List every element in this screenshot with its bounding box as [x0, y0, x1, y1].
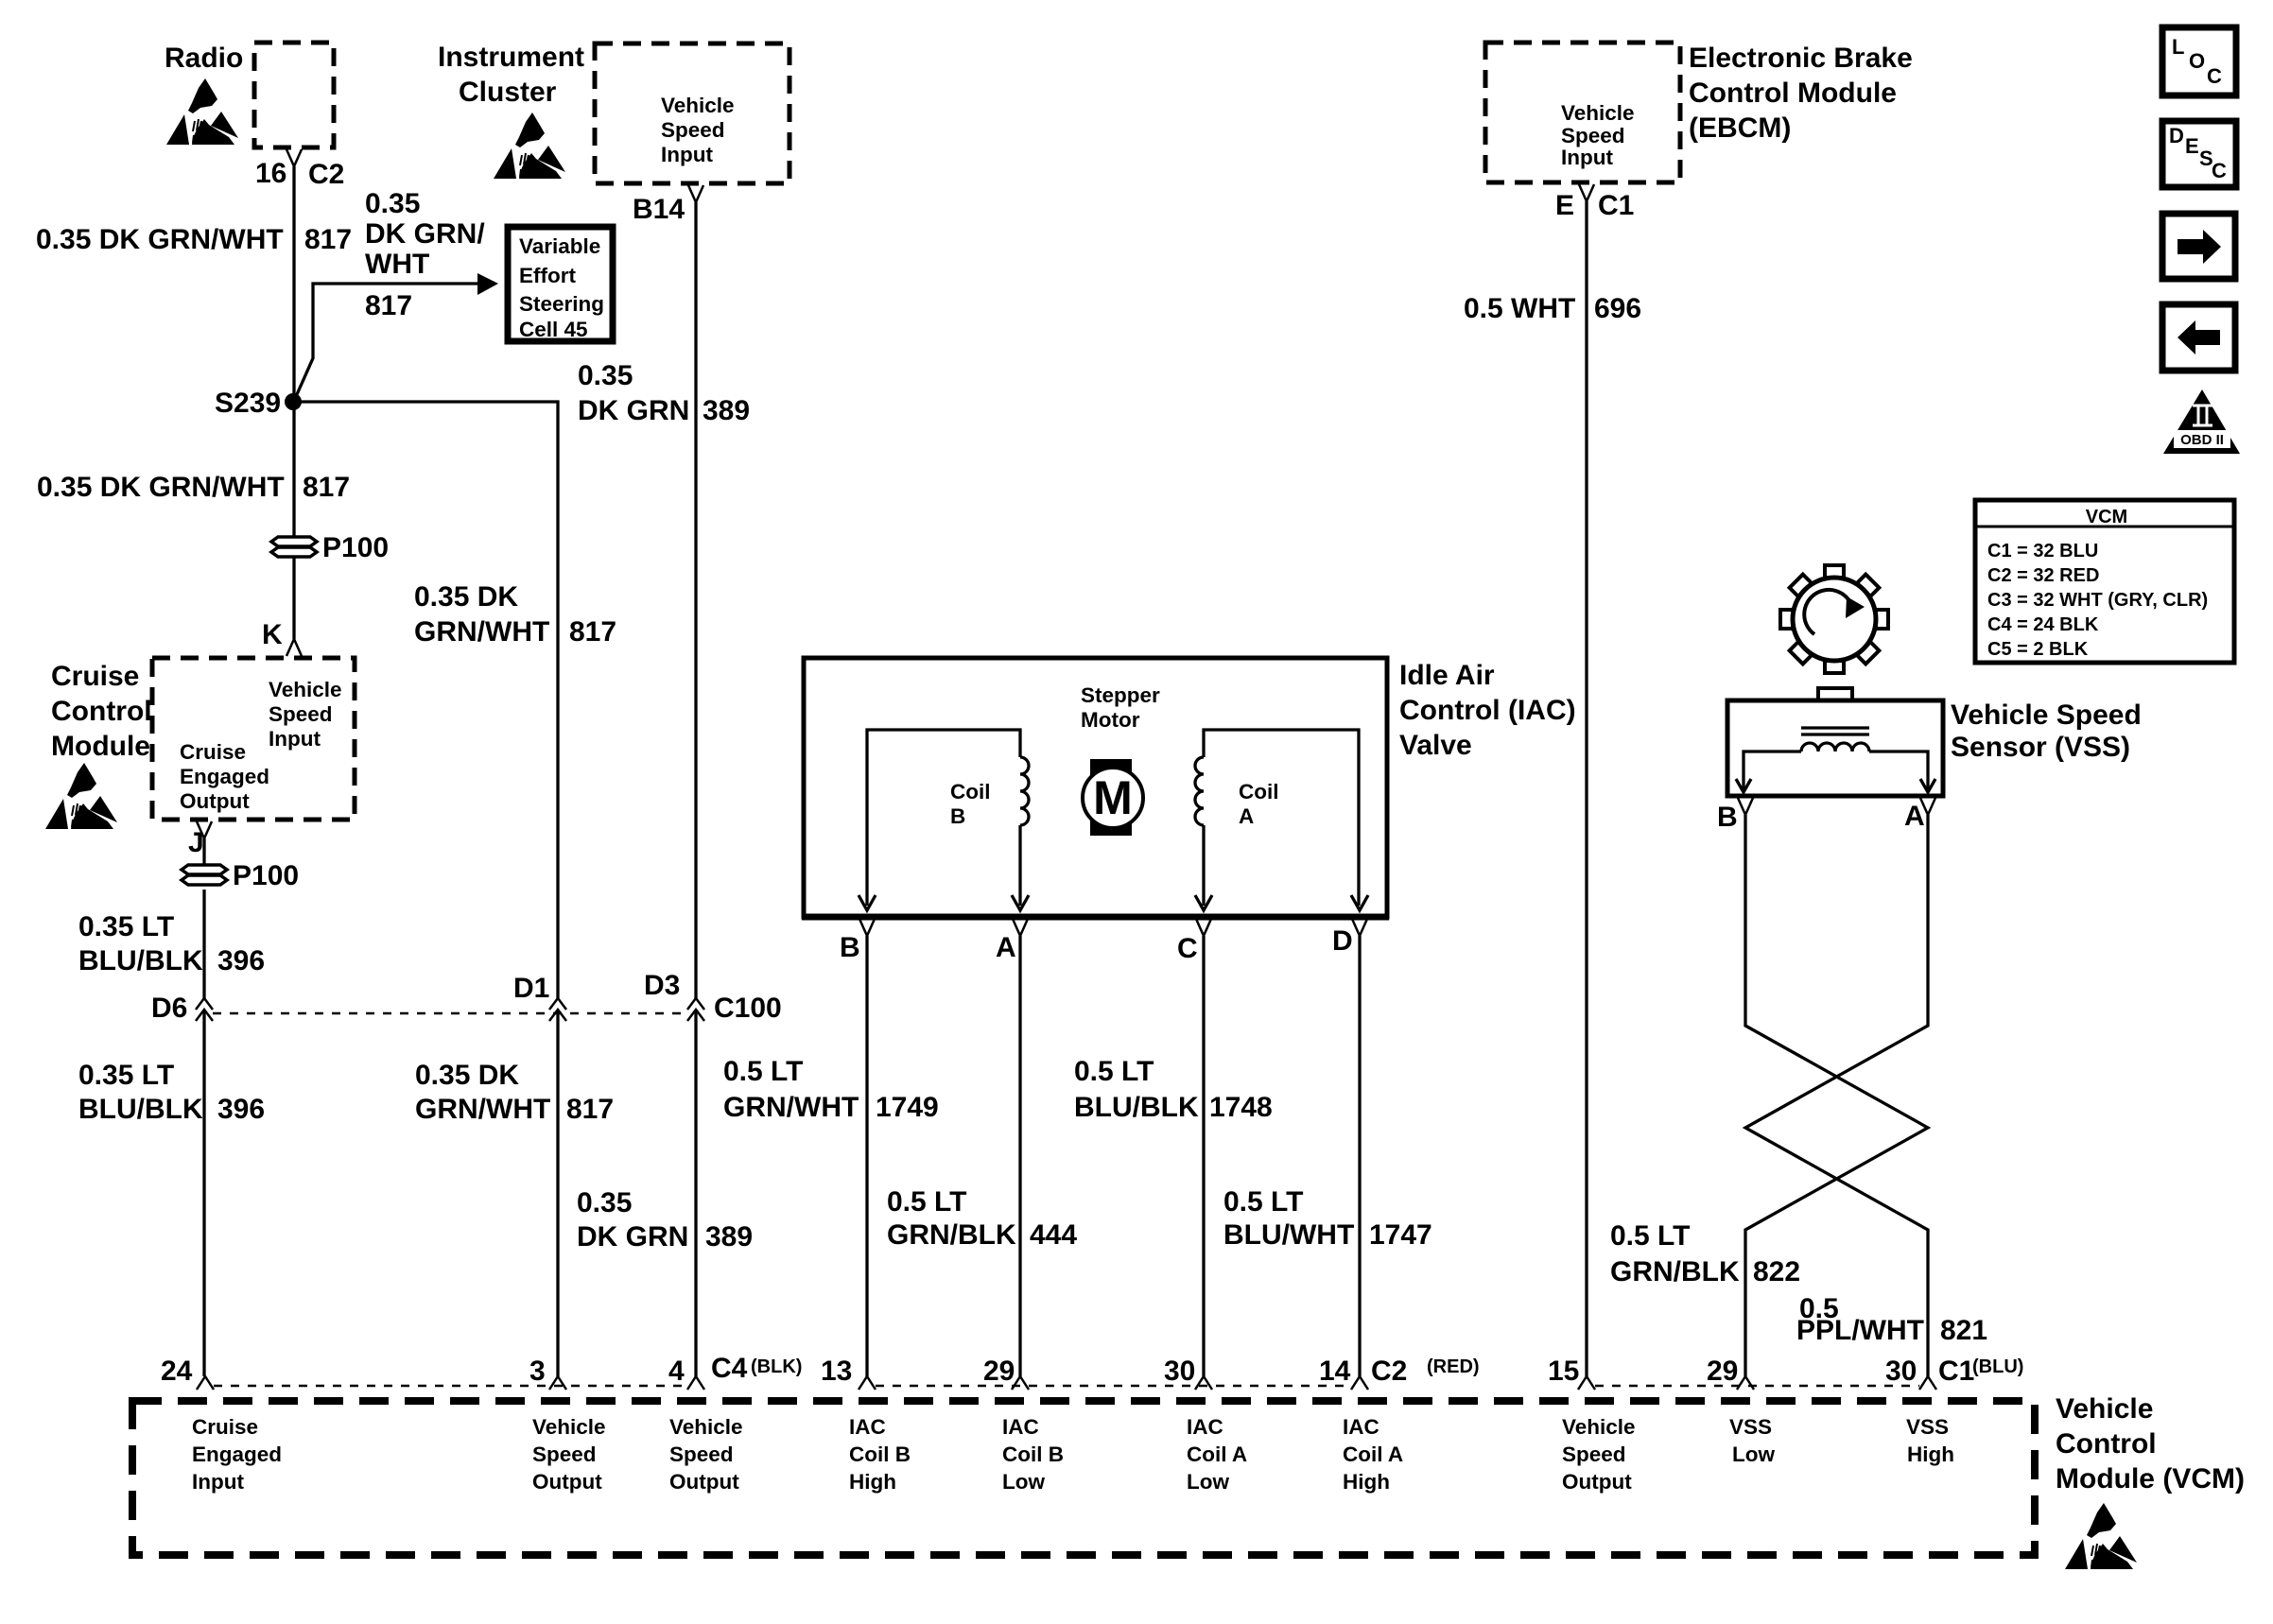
svg-text:DK GRN: DK GRN: [577, 1221, 688, 1253]
svg-text:A: A: [996, 932, 1016, 963]
svg-text:14: 14: [1319, 1356, 1351, 1387]
svg-text:Coil B: Coil B: [1002, 1443, 1064, 1466]
svg-text:E: E: [2185, 134, 2199, 158]
svg-text:GRN/BLK: GRN/BLK: [1610, 1256, 1740, 1287]
svg-text:Engaged: Engaged: [180, 765, 269, 788]
svg-text:0.35 DK GRN/WHT: 0.35 DK GRN/WHT: [37, 472, 285, 503]
svg-text:Speed: Speed: [1561, 124, 1625, 147]
svg-text:0.35 DK GRN/WHT: 0.35 DK GRN/WHT: [36, 224, 284, 255]
svg-text:P100: P100: [233, 860, 299, 891]
svg-text:High: High: [849, 1470, 896, 1494]
svg-text:WHT: WHT: [365, 249, 429, 280]
svg-text:GRN/WHT: GRN/WHT: [723, 1092, 859, 1123]
svg-text:VSS: VSS: [1906, 1415, 1949, 1439]
svg-text:High: High: [1343, 1470, 1390, 1494]
svg-text:IAC: IAC: [1187, 1415, 1223, 1439]
svg-text:Module: Module: [51, 731, 150, 762]
svg-text:Cell 45: Cell 45: [519, 318, 588, 341]
svg-text:B: B: [1717, 802, 1738, 833]
svg-text:C: C: [2212, 159, 2227, 182]
svg-text:Low: Low: [1187, 1470, 1229, 1494]
svg-text:Output: Output: [180, 789, 250, 813]
svg-text:Effort: Effort: [519, 264, 576, 287]
svg-text:IAC: IAC: [1343, 1415, 1379, 1439]
svg-text:0.5 LT: 0.5 LT: [723, 1056, 803, 1087]
svg-text:389: 389: [705, 1221, 753, 1253]
svg-text:817: 817: [569, 616, 616, 648]
svg-text:Cruise: Cruise: [51, 661, 139, 692]
svg-text:C100: C100: [714, 993, 782, 1024]
svg-text:Variable: Variable: [519, 234, 600, 258]
svg-text:P100: P100: [322, 532, 389, 563]
svg-text:Speed: Speed: [661, 118, 725, 142]
svg-text:0.35 LT: 0.35 LT: [78, 1060, 174, 1091]
svg-text:B: B: [950, 804, 965, 828]
svg-text:Input: Input: [192, 1470, 244, 1494]
svg-text:DK GRN: DK GRN: [578, 395, 689, 426]
svg-text:A: A: [1904, 801, 1925, 832]
svg-text:Vehicle: Vehicle: [1561, 101, 1635, 125]
svg-text:Input: Input: [269, 727, 321, 751]
svg-text:(EBCM): (EBCM): [1689, 112, 1791, 144]
svg-text:C1 = 32 BLU: C1 = 32 BLU: [1987, 541, 2098, 561]
svg-text:C2: C2: [308, 159, 344, 190]
svg-text:29: 29: [983, 1356, 1015, 1387]
svg-text:Low: Low: [1732, 1443, 1775, 1466]
svg-text:A: A: [1239, 804, 1254, 828]
svg-text:E: E: [1555, 190, 1574, 221]
svg-text:Cruise: Cruise: [192, 1415, 258, 1439]
svg-text:BLU/WHT: BLU/WHT: [1223, 1219, 1354, 1251]
svg-text:817: 817: [304, 224, 352, 255]
svg-text:444: 444: [1030, 1219, 1077, 1251]
svg-text:C1: C1: [1598, 190, 1634, 221]
svg-text:D: D: [1332, 925, 1353, 957]
svg-text:OBD II: OBD II: [2180, 432, 2224, 448]
svg-text:Input: Input: [1561, 146, 1613, 169]
svg-text:J: J: [188, 827, 204, 858]
svg-text:High: High: [1907, 1443, 1954, 1466]
svg-text:29: 29: [1707, 1356, 1738, 1387]
svg-text:Speed: Speed: [269, 702, 333, 726]
svg-text:817: 817: [566, 1094, 614, 1125]
svg-text:0.5 LT: 0.5 LT: [1074, 1056, 1154, 1087]
svg-text:817: 817: [365, 290, 412, 321]
svg-text:D: D: [2169, 124, 2184, 147]
svg-text:Steering: Steering: [519, 292, 604, 316]
svg-text:(RED): (RED): [1427, 1356, 1480, 1377]
svg-text:D1: D1: [513, 973, 549, 1004]
svg-text:0.35: 0.35: [578, 360, 633, 391]
svg-text:Radio: Radio: [165, 43, 243, 74]
svg-text:822: 822: [1753, 1256, 1800, 1287]
svg-text:3: 3: [529, 1356, 546, 1387]
svg-text:C: C: [1177, 933, 1198, 964]
svg-text:0.35: 0.35: [365, 188, 420, 219]
svg-text:D6: D6: [151, 993, 187, 1024]
svg-text:Vehicle: Vehicle: [2056, 1393, 2153, 1425]
svg-text:Vehicle: Vehicle: [669, 1415, 743, 1439]
svg-text:817: 817: [303, 472, 350, 503]
svg-text:C: C: [2207, 64, 2222, 88]
svg-text:Stepper: Stepper: [1081, 683, 1160, 707]
svg-text:BLU/BLK: BLU/BLK: [1074, 1092, 1199, 1123]
svg-text:Module (VCM): Module (VCM): [2056, 1463, 2245, 1494]
svg-text:15: 15: [1548, 1356, 1579, 1387]
svg-text:0.5 LT: 0.5 LT: [887, 1186, 966, 1218]
svg-text:GRN/WHT: GRN/WHT: [414, 616, 549, 648]
svg-text:C2: C2: [1371, 1356, 1407, 1387]
svg-text:Vehicle: Vehicle: [1562, 1415, 1636, 1439]
svg-text:30: 30: [1885, 1356, 1917, 1387]
svg-text:Coil: Coil: [950, 780, 991, 803]
svg-text:389: 389: [703, 395, 750, 426]
svg-text:C4 = 24 BLK: C4 = 24 BLK: [1987, 614, 2099, 635]
svg-text:Control (IAC): Control (IAC): [1399, 695, 1576, 726]
svg-text:1749: 1749: [876, 1092, 939, 1123]
svg-text:13: 13: [821, 1356, 852, 1387]
svg-text:Sensor (VSS): Sensor (VSS): [1951, 732, 2130, 763]
svg-text:396: 396: [217, 945, 265, 976]
svg-text:M: M: [1093, 771, 1133, 824]
svg-text:Output: Output: [532, 1470, 602, 1494]
svg-text:Motor: Motor: [1081, 708, 1140, 732]
svg-text:Control: Control: [2056, 1428, 2157, 1460]
svg-text:Valve: Valve: [1399, 730, 1472, 761]
svg-text:(BLU): (BLU): [1972, 1356, 2023, 1377]
svg-text:Output: Output: [1562, 1470, 1632, 1494]
svg-text:Low: Low: [1002, 1470, 1045, 1494]
svg-text:IAC: IAC: [1002, 1415, 1039, 1439]
svg-text:BLU/BLK: BLU/BLK: [78, 945, 203, 976]
svg-text:VCM: VCM: [2086, 507, 2127, 527]
svg-text:GRN/BLK: GRN/BLK: [887, 1219, 1016, 1251]
svg-text:O: O: [2189, 49, 2205, 73]
svg-text:Coil A: Coil A: [1187, 1443, 1247, 1466]
svg-text:Coil: Coil: [1239, 780, 1279, 803]
svg-text:Cluster: Cluster: [459, 77, 557, 108]
svg-text:(BLK): (BLK): [751, 1356, 802, 1377]
svg-text:D3: D3: [644, 970, 680, 1001]
svg-text:1747: 1747: [1369, 1219, 1432, 1251]
svg-text:Instrument: Instrument: [438, 42, 584, 73]
svg-text:30: 30: [1164, 1356, 1195, 1387]
svg-text:GRN/WHT: GRN/WHT: [415, 1094, 550, 1125]
svg-text:K: K: [262, 619, 283, 650]
svg-text:0.35 DK: 0.35 DK: [414, 581, 518, 613]
svg-text:BLU/BLK: BLU/BLK: [78, 1094, 203, 1125]
svg-text:0.5 WHT: 0.5 WHT: [1464, 293, 1575, 324]
svg-text:Speed: Speed: [532, 1443, 597, 1466]
svg-text:S239: S239: [215, 388, 281, 419]
svg-text:Control: Control: [51, 696, 152, 727]
svg-text:PPL/WHT: PPL/WHT: [1796, 1315, 1924, 1346]
svg-text:Speed: Speed: [1562, 1443, 1626, 1466]
svg-text:IAC: IAC: [849, 1415, 886, 1439]
svg-text:C3 = 32 WHT (GRY, CLR): C3 = 32 WHT (GRY, CLR): [1987, 590, 2208, 611]
svg-text:0.35 LT: 0.35 LT: [78, 911, 174, 942]
svg-text:B: B: [840, 932, 860, 963]
svg-text:C2 = 32 RED: C2 = 32 RED: [1987, 565, 2099, 586]
svg-text:C1: C1: [1938, 1356, 1974, 1387]
svg-text:Input: Input: [661, 143, 713, 166]
svg-text:16: 16: [255, 158, 286, 189]
svg-text:0.5 LT: 0.5 LT: [1223, 1186, 1303, 1218]
svg-text:696: 696: [1594, 293, 1641, 324]
svg-text:0.35 DK: 0.35 DK: [415, 1060, 519, 1091]
svg-text:Control Module: Control Module: [1689, 78, 1897, 109]
svg-text:C5 = 2 BLK: C5 = 2 BLK: [1987, 639, 2089, 660]
svg-text:24: 24: [161, 1356, 193, 1387]
svg-text:Coil A: Coil A: [1343, 1443, 1403, 1466]
svg-text:Speed: Speed: [669, 1443, 734, 1466]
svg-text:VSS: VSS: [1729, 1415, 1772, 1439]
svg-text:1748: 1748: [1209, 1092, 1273, 1123]
svg-text:Coil B: Coil B: [849, 1443, 911, 1466]
svg-text:Electronic Brake: Electronic Brake: [1689, 43, 1913, 74]
svg-text:Vehicle Speed: Vehicle Speed: [1951, 700, 2142, 731]
svg-text:Engaged: Engaged: [192, 1443, 282, 1466]
svg-text:396: 396: [217, 1094, 265, 1125]
svg-text:DK GRN/: DK GRN/: [365, 218, 485, 250]
svg-text:821: 821: [1940, 1315, 1987, 1346]
svg-text:C4: C4: [711, 1353, 748, 1384]
svg-text:Vehicle: Vehicle: [661, 94, 735, 117]
svg-text:Output: Output: [669, 1470, 739, 1494]
svg-text:B14: B14: [633, 194, 685, 225]
svg-text:Idle Air: Idle Air: [1399, 660, 1495, 691]
svg-text:Vehicle: Vehicle: [532, 1415, 606, 1439]
svg-text:Vehicle: Vehicle: [269, 678, 342, 701]
svg-text:0.5 LT: 0.5 LT: [1610, 1220, 1690, 1252]
svg-text:L: L: [2172, 35, 2184, 59]
svg-text:0.35: 0.35: [577, 1187, 632, 1218]
svg-text:4: 4: [668, 1356, 685, 1387]
svg-text:Cruise: Cruise: [180, 740, 246, 764]
